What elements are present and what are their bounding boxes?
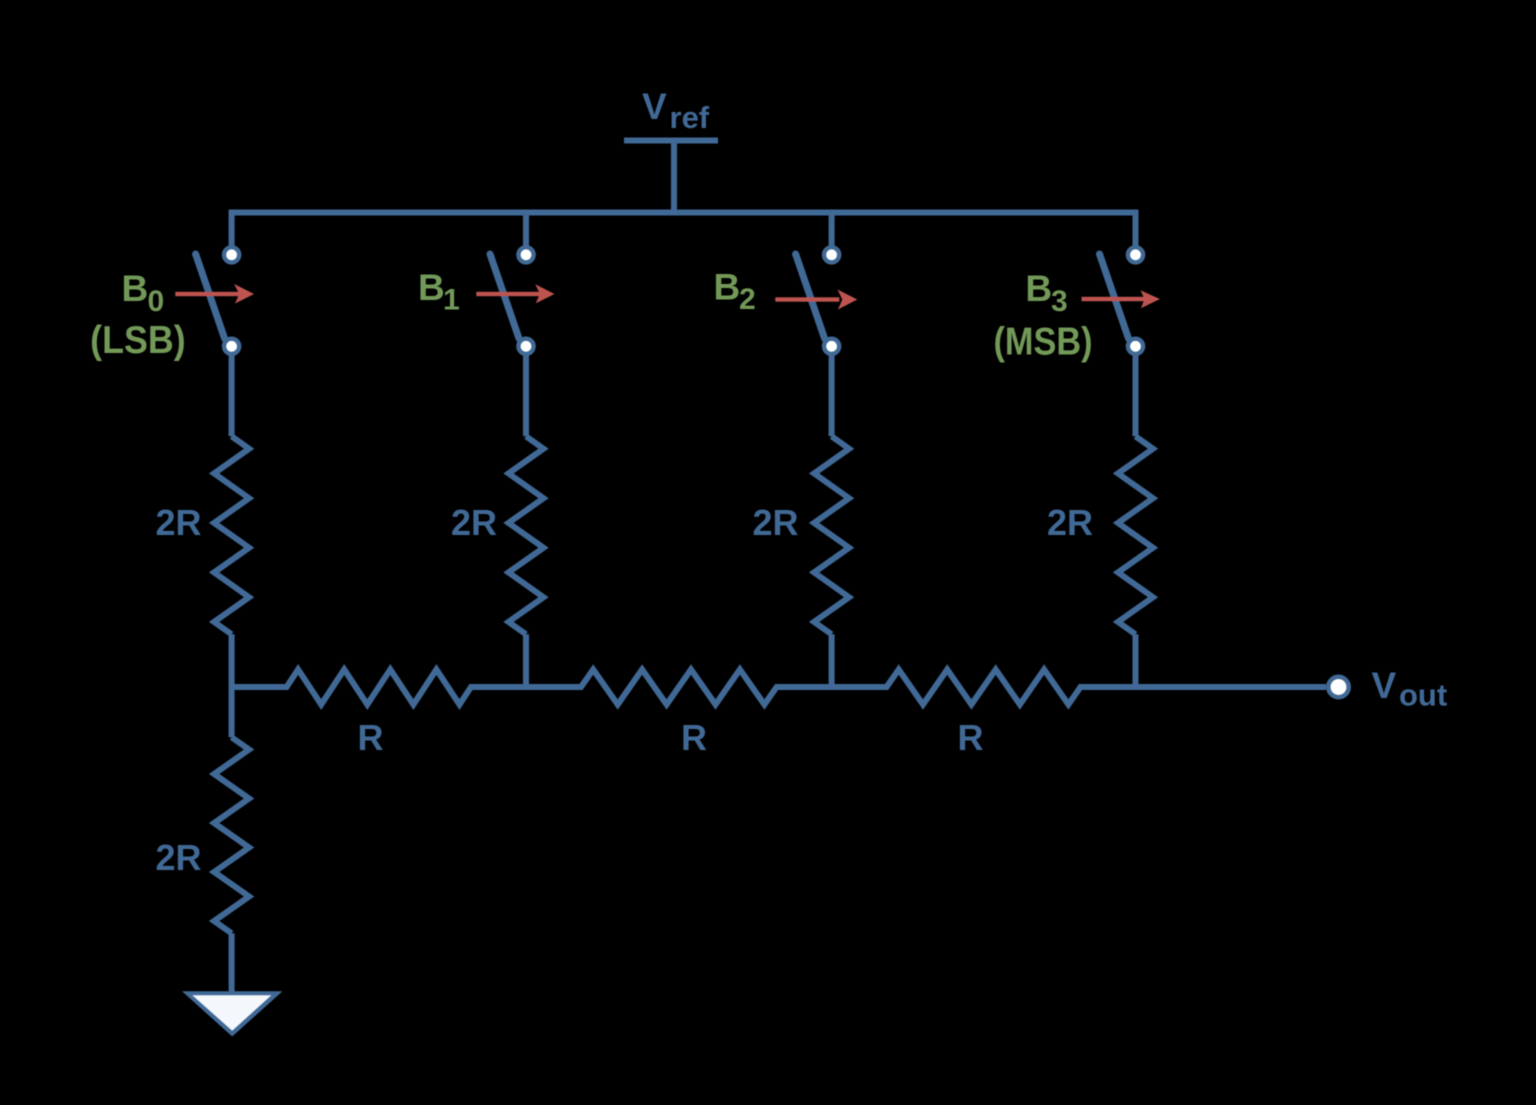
svg-text:B: B [1025, 268, 1052, 309]
svg-text:2: 2 [739, 283, 756, 316]
svg-text:2R: 2R [451, 502, 497, 543]
svg-text:V: V [642, 86, 667, 127]
svg-text:ref: ref [670, 100, 710, 135]
svg-text:R: R [958, 717, 984, 758]
svg-text:2R: 2R [155, 502, 201, 543]
svg-text:(LSB): (LSB) [90, 319, 186, 362]
svg-text:B: B [418, 267, 445, 308]
svg-text:out: out [1399, 678, 1447, 713]
svg-text:(MSB): (MSB) [994, 321, 1093, 364]
svg-text:3: 3 [1051, 285, 1068, 318]
svg-text:0: 0 [148, 285, 165, 318]
svg-text:B: B [714, 267, 741, 308]
svg-text:2R: 2R [752, 502, 798, 543]
svg-text:B: B [122, 268, 149, 309]
svg-text:R: R [358, 717, 384, 758]
svg-text:V: V [1372, 665, 1397, 706]
svg-text:1: 1 [443, 284, 460, 317]
svg-text:R: R [681, 717, 707, 758]
svg-text:2R: 2R [155, 837, 201, 878]
svg-text:2R: 2R [1047, 502, 1093, 543]
